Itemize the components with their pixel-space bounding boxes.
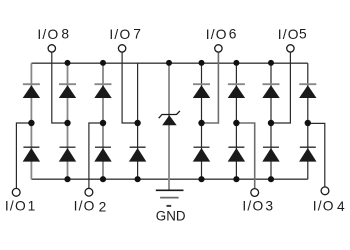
diode D2 upper col2: [59, 84, 76, 98]
svg-text:3: 3: [265, 198, 273, 213]
label I/O 4: [313, 199, 345, 214]
ground: [156, 190, 184, 206]
diode D10 lower col3: [94, 147, 111, 161]
svg-text:1: 1: [28, 198, 36, 213]
junction bottom bus col5: [198, 176, 204, 182]
junction bottom bus col4: [135, 176, 141, 182]
wire I/O 4 lead: [308, 123, 325, 186]
wire column 2: [67, 63, 69, 179]
junction top bus col6: [233, 60, 239, 66]
svg-text:I/O: I/O: [242, 198, 264, 213]
label I/O 6: [206, 26, 237, 42]
wire I/O 7 lead: [122, 52, 138, 123]
diode D7 upper col8: [299, 84, 316, 98]
diode D12 lower col5: [193, 147, 210, 161]
wire I/O 1 lead: [16, 123, 31, 188]
label I/O 3: [242, 198, 273, 213]
terminal I/O 2: [85, 188, 93, 196]
junction top bus col5: [199, 60, 205, 66]
svg-text:7: 7: [133, 26, 141, 41]
wire column 6: [235, 63, 237, 179]
label I/O 7: [109, 26, 140, 42]
junction bottom bus col7: [268, 176, 274, 182]
node mid col2: [64, 120, 70, 126]
wire bottom bus: [31, 178, 307, 180]
wire I/O 6 lead: [202, 52, 219, 123]
svg-text:I/O: I/O: [278, 27, 300, 42]
node mid col5: [198, 120, 204, 126]
svg-text:I/O: I/O: [5, 198, 27, 213]
label I/O 1: [5, 198, 35, 213]
zener diode Z1: [159, 111, 180, 125]
junction bottom bus col6: [233, 176, 239, 182]
terminal I/O 3: [251, 189, 259, 197]
wire column 4: [137, 63, 139, 179]
diode D8 lower col1: [23, 147, 40, 161]
diode D13 lower col6: [228, 147, 245, 161]
terminal I/O 6: [215, 45, 222, 52]
wire column 3: [102, 63, 104, 179]
diode D4 upper col5: [193, 84, 210, 98]
wire zener column: [168, 63, 170, 190]
node mid col3: [100, 120, 106, 126]
svg-text:I/O: I/O: [37, 27, 59, 42]
terminal I/O 7: [118, 45, 125, 52]
junction top bus col7: [268, 60, 274, 66]
junction bottom bus col3: [100, 176, 106, 182]
node mid col1: [28, 120, 34, 126]
junction bottom bus col2: [64, 176, 70, 182]
svg-text:I/O: I/O: [74, 198, 96, 213]
wire top bus: [31, 62, 307, 64]
svg-text:GND: GND: [156, 208, 186, 223]
diode D15 lower col8: [299, 147, 316, 161]
terminal I/O 1: [12, 188, 20, 196]
terminal I/O 5: [287, 45, 294, 52]
svg-text:8: 8: [61, 26, 69, 41]
label I/O 5: [278, 26, 307, 42]
svg-text:6: 6: [229, 26, 237, 41]
label I/O 8: [37, 26, 69, 42]
svg-text:5: 5: [299, 26, 307, 41]
wire I/O 5 lead: [271, 52, 290, 123]
wire I/O 3 lead: [236, 123, 254, 189]
node mid col7: [268, 120, 274, 126]
wire column 7: [270, 63, 272, 179]
svg-text:4: 4: [337, 199, 345, 214]
diode D5 upper col6: [228, 84, 245, 98]
node mid col4: [134, 120, 140, 126]
junction top bus col2: [65, 60, 71, 66]
wire column 8: [307, 63, 309, 179]
terminal I/O 4: [321, 187, 329, 195]
diode D11 lower col4: [129, 147, 146, 161]
svg-text:I/O: I/O: [313, 199, 335, 214]
wire column 1: [30, 63, 32, 179]
label I/O 2: [74, 198, 107, 214]
svg-text:I/O: I/O: [206, 27, 228, 42]
diode D1 upper col1: [23, 84, 40, 98]
junction top bus col3: [100, 60, 106, 66]
node mid col6: [233, 120, 239, 126]
wire I/O 2 lead: [89, 123, 103, 188]
node mid col8: [305, 120, 311, 126]
wire column 5: [201, 63, 203, 179]
terminal I/O 8: [48, 45, 55, 52]
svg-text:2: 2: [99, 200, 107, 215]
diode D14 lower col7: [262, 147, 279, 161]
svg-text:I/O: I/O: [109, 27, 131, 42]
diode D9 lower col2: [59, 147, 76, 161]
wire I/O 8 lead: [52, 52, 68, 123]
junction top bus zener: [166, 60, 172, 66]
diode D3 upper col3: [94, 84, 111, 98]
diode D6 upper col7: [262, 84, 279, 98]
